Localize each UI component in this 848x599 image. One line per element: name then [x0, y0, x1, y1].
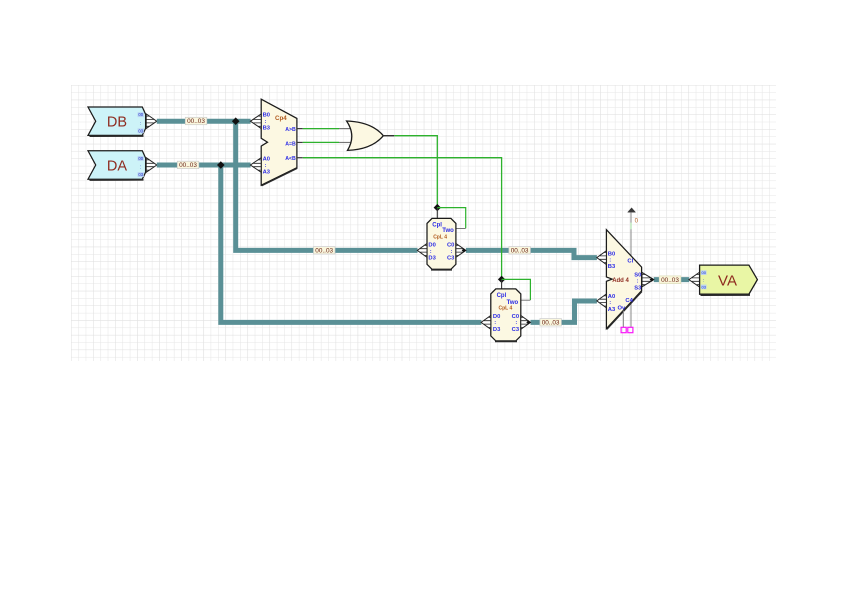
svg-text::: :	[494, 320, 496, 326]
svg-text:B3: B3	[608, 264, 616, 270]
svg-text:D0: D0	[428, 243, 435, 249]
bus tap adder A inputs	[597, 294, 607, 308]
wire node to Cpl2 top pin	[501, 279, 503, 289]
pink net label C4	[621, 327, 626, 332]
svg-text:00..03: 00..03	[179, 162, 197, 169]
wire node to Cpl1 top pin	[436, 208, 438, 219]
svg-text:A0: A0	[608, 294, 615, 300]
or-gate U2	[347, 121, 395, 150]
bus adder S to VA	[654, 277, 689, 282]
svg-text:00: 00	[138, 156, 143, 161]
wire A=B to OR input	[297, 141, 351, 143]
svg-text:00: 00	[138, 112, 143, 117]
svg-text:B3: B3	[263, 126, 271, 132]
svg-text:03: 03	[138, 172, 143, 177]
svg-text:03: 03	[138, 128, 143, 133]
junction node on DA bus	[217, 161, 225, 169]
bus tap adder S outputs	[642, 272, 654, 286]
input port DB	[88, 107, 146, 136]
power rail symbol '0' above adder	[628, 208, 639, 225]
wire OR output down to Cpl1 node	[394, 136, 437, 206]
svg-text:03: 03	[701, 284, 706, 289]
svg-text:00..03: 00..03	[187, 118, 205, 125]
comparator U1 Cp4	[261, 99, 297, 186]
bus tap comparator A inputs	[250, 158, 261, 173]
svg-text:C0: C0	[447, 243, 454, 249]
svg-text::: :	[140, 165, 141, 171]
svg-text::: :	[609, 258, 611, 264]
svg-text::: :	[515, 320, 517, 326]
node above Cpl2	[498, 276, 505, 283]
twos complementer U4 Cpl2	[491, 289, 521, 342]
wire bracket node to Cpl1 Two pin	[437, 208, 465, 229]
svg-text:C3: C3	[512, 327, 520, 333]
wire CI from power to adder	[630, 213, 632, 328]
svg-text:B0: B0	[263, 113, 270, 119]
wire Ov output down	[622, 311, 624, 328]
svg-text::: :	[703, 278, 704, 284]
adder U5 Add 4	[606, 230, 642, 330]
pink net label OV	[628, 327, 633, 332]
svg-text:D3: D3	[493, 327, 501, 333]
svg-text:D0: D0	[493, 314, 500, 320]
bus Cpl1 out to adder B	[466, 250, 597, 257]
svg-text:CpL 4: CpL 4	[499, 305, 513, 311]
bus DB vertical + middle bus to Cpl1	[236, 121, 418, 250]
svg-text::: :	[140, 121, 141, 127]
bus DA vertical + lower bus to Cpl2	[221, 165, 482, 322]
svg-text:CI: CI	[627, 259, 633, 265]
bus label Cpl1 out 00..03	[509, 247, 531, 255]
svg-text:CpL 4: CpL 4	[433, 235, 447, 241]
svg-text:D3: D3	[428, 255, 436, 261]
svg-text:Ov: Ov	[618, 306, 627, 312]
svg-text:A3: A3	[263, 170, 271, 176]
bus label DA 00..03	[177, 161, 199, 169]
svg-text:C4: C4	[625, 298, 633, 304]
bus tap Cpl2 D inputs	[481, 316, 491, 330]
wire bracket node to Cpl2 Two pin	[502, 279, 531, 300]
svg-text:Two: Two	[442, 228, 454, 234]
bus DA horizontal	[157, 163, 251, 168]
svg-text:C3: C3	[447, 255, 455, 261]
bus tap DA	[146, 158, 157, 173]
output port VA	[700, 265, 758, 295]
bus label adder out 00..03	[659, 276, 681, 284]
svg-text:Cp4: Cp4	[275, 115, 287, 122]
svg-text:00..03: 00..03	[661, 277, 679, 284]
svg-text:Cpl: Cpl	[497, 293, 507, 299]
svg-text:00..03: 00..03	[315, 248, 333, 255]
svg-text:DB: DB	[107, 115, 127, 131]
svg-text::: :	[265, 119, 267, 125]
svg-text:C0: C0	[512, 314, 519, 320]
node above Cpl1	[434, 204, 441, 211]
twos complementer U3 Cpl1	[427, 218, 456, 270]
bus tap Cpl2 C outputs	[521, 316, 531, 330]
svg-text:Cpl: Cpl	[432, 222, 442, 228]
svg-text::: :	[430, 249, 432, 255]
bus tap DB	[146, 114, 157, 129]
bus tap adder B inputs	[597, 251, 607, 265]
bus label middle 00..03	[314, 247, 336, 255]
svg-text::: :	[637, 279, 639, 285]
bus tap VA input	[689, 272, 700, 287]
svg-text:Add 4: Add 4	[612, 278, 629, 284]
svg-text:00..03: 00..03	[542, 320, 560, 327]
svg-text:VA: VA	[718, 272, 737, 289]
bus Cpl2 out to adder A	[531, 301, 597, 322]
svg-text:S3: S3	[634, 286, 642, 292]
svg-text::: :	[451, 249, 453, 255]
svg-text:A>B: A>B	[285, 127, 296, 133]
svg-text:A3: A3	[608, 307, 616, 313]
input port DA	[88, 151, 146, 180]
bus tap comparator B inputs	[250, 114, 261, 129]
wire A<B down to Cpl2 node	[297, 158, 502, 278]
bus label Cpl2 out 00..03	[540, 319, 562, 327]
svg-text:A0: A0	[263, 156, 270, 162]
svg-text:00: 00	[701, 270, 706, 275]
svg-text::: :	[265, 163, 267, 169]
svg-text:B0: B0	[608, 251, 615, 257]
bus DB horizontal	[157, 119, 251, 124]
svg-text:00..03: 00..03	[511, 248, 529, 255]
svg-text:A=B: A=B	[285, 142, 296, 148]
bus tap Cpl1 C outputs	[456, 244, 466, 258]
svg-text::: :	[609, 300, 611, 306]
wire A>B to OR input	[297, 128, 351, 130]
junction node on DB bus	[232, 117, 240, 125]
svg-text:A<B: A<B	[285, 156, 296, 162]
bus label DB 00..03	[185, 117, 207, 125]
svg-text:DA: DA	[107, 158, 127, 174]
bus tap Cpl1 D inputs	[417, 244, 427, 258]
svg-text:S0: S0	[634, 272, 641, 278]
